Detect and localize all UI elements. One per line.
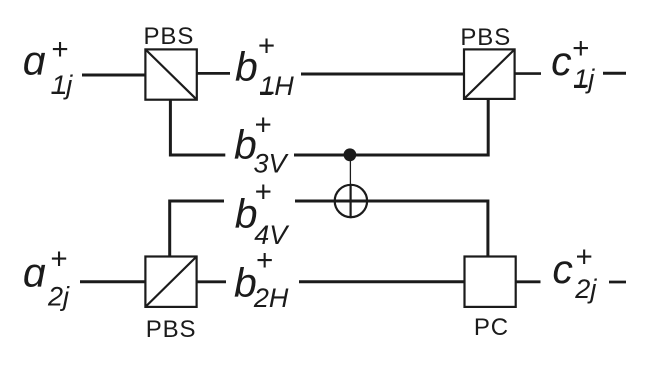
label c1j+ [551,32,595,94]
wire b4V to PC top [295,201,488,257]
label b3V+ [234,108,290,178]
node control dot [344,148,357,161]
wire input a1j [82,74,145,77]
wire control vertical line [349,155,351,185]
wire PC to c2j [516,280,541,283]
svg-text:3V: 3V [254,148,290,178]
svg-text:PBS: PBS [146,316,197,343]
svg-text:+: + [256,244,273,277]
svg-text:1j: 1j [573,64,595,94]
label c2j+ [552,241,597,305]
wire PBS U3 up to b4V [170,201,224,257]
wire output dash c1j [603,72,626,75]
svg-text:1j: 1j [51,70,73,100]
CNOT target circle [335,185,367,217]
label b1H+ [235,30,294,102]
PBS U3 bottom-left box [145,257,196,307]
svg-text:PBS: PBS [460,24,511,51]
PBS U2 top-right box [464,49,515,99]
svg-text:+: + [51,33,68,66]
svg-text:2H: 2H [253,283,289,313]
svg-text:+: + [254,176,271,209]
wire input a2j [80,280,145,283]
wire output dash c2j [609,281,626,284]
label a1j+ [23,33,74,100]
wire PBS U1 down to b3V [170,100,225,155]
wire b2H to PC [299,280,465,283]
label b2H+ [234,244,289,313]
wire b3V to PBS U2 bottom [294,99,488,155]
svg-text:+: + [50,243,67,276]
wire b1H to PBS U2 [301,73,464,76]
CNOT target cross vertical [350,184,352,218]
PBS U1 top-left box [145,49,196,99]
svg-text:1H: 1H [259,71,294,101]
svg-text:2j: 2j [574,274,597,304]
svg-text:+: + [258,30,275,63]
svg-text:+: + [254,108,271,141]
svg-text:c: c [551,38,572,84]
svg-text:ɑ: ɑ [23,250,46,296]
wire PBS U3 to b2H [197,280,226,283]
svg-text:ɑ: ɑ [23,38,46,84]
svg-text:PBS: PBS [144,23,195,50]
svg-text:+: + [575,241,592,274]
svg-text:b: b [235,44,258,90]
wire PBS U2 to c1j [515,72,541,75]
label a2j+ [23,243,70,312]
PC U4 box [465,257,516,307]
svg-text:2j: 2j [47,282,70,312]
wire PBS U1 to b1H [197,72,230,75]
svg-text:PC: PC [474,314,509,341]
label b4V+ [235,176,290,250]
svg-text:c: c [552,246,573,292]
svg-text:+: + [572,32,589,65]
